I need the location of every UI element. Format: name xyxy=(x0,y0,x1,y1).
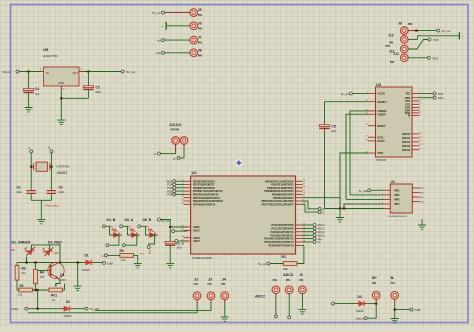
pin PD2 xyxy=(183,186,216,190)
pin PC2 xyxy=(270,230,306,234)
wire to resonator ground xyxy=(31,200,51,217)
LED D4_B xyxy=(102,218,122,238)
wire J3 to 5v_usb xyxy=(95,303,211,310)
svg-text:J5: J5 xyxy=(198,8,202,12)
connector G xyxy=(298,279,306,314)
pin PB2 xyxy=(267,186,306,190)
svg-text:100n: 100n xyxy=(177,248,183,250)
svg-text:C1: C1 xyxy=(17,186,21,190)
LED D6_R xyxy=(138,218,158,238)
terminal ADC3 xyxy=(303,233,325,237)
ground U5 xyxy=(57,118,65,125)
svg-text:PIN: PIN xyxy=(198,27,202,30)
svg-text:1N4007: 1N4007 xyxy=(356,311,365,313)
svg-text:1N4007: 1N4007 xyxy=(82,270,91,272)
pin J1 MP1 xyxy=(395,188,425,192)
terminal 5v_rec output xyxy=(121,70,136,74)
potentiometer RV1 xyxy=(49,284,65,302)
terminal ADC2 xyxy=(303,230,325,234)
pin PD1 xyxy=(183,183,215,187)
svg-text:J12: J12 xyxy=(393,52,399,56)
svg-text:PIN: PIN xyxy=(198,42,202,45)
wire to D3 xyxy=(335,303,356,305)
svg-text:ADC3: ADC3 xyxy=(283,273,293,277)
pin U3 RI xyxy=(408,114,422,118)
svg-text:G: G xyxy=(300,273,303,277)
svg-text:5v_usb: 5v_usb xyxy=(359,189,368,193)
terminal t1 right xyxy=(318,207,325,211)
svg-text:ADC2: ADC2 xyxy=(255,294,265,298)
connector J6 xyxy=(162,21,203,30)
svg-text:220: 220 xyxy=(22,272,27,275)
wire PB6 to t1 xyxy=(303,201,319,209)
svg-text:10u: 10u xyxy=(35,92,40,96)
svg-text:D1_GREEN: D1_GREEN xyxy=(12,241,31,245)
capacitor C2 xyxy=(47,186,65,201)
terminal TDX J11 xyxy=(428,38,439,42)
svg-text:TDX: TDX xyxy=(433,38,439,42)
resistor R3 xyxy=(15,266,26,290)
connector J9 xyxy=(398,21,416,34)
svg-text:Q1: Q1 xyxy=(60,273,65,277)
wire Vinput to B+ xyxy=(367,304,376,319)
pin U3 DTR xyxy=(405,106,421,110)
terminal RDX xyxy=(167,179,184,183)
pin U3 OSCI xyxy=(366,136,384,140)
terminal R5 left xyxy=(101,254,108,258)
pin U3 USBDP xyxy=(366,113,387,117)
svg-text:R3: R3 xyxy=(22,267,26,271)
diode D3 1N4007 xyxy=(356,295,378,313)
pin U3 RXD xyxy=(405,96,421,100)
svg-text:scl: scl xyxy=(318,240,322,244)
pin PB7 xyxy=(262,203,306,207)
svg-text:PIN: PIN xyxy=(391,282,395,285)
svg-text:ATMEGA328P: ATMEGA328P xyxy=(192,256,212,260)
pin PB1 xyxy=(271,183,306,187)
svg-text:B+: B+ xyxy=(372,276,378,280)
pin U3 DCD xyxy=(405,111,423,115)
pin U3 CBUS0 xyxy=(402,132,423,136)
wire D5_A bottom xyxy=(125,235,136,245)
connector J4 xyxy=(221,278,229,304)
svg-text:16MHZ: 16MHZ xyxy=(57,171,68,175)
wire TXD to TDX xyxy=(419,93,433,95)
svg-text:PIN: PIN xyxy=(194,283,198,286)
svg-text:J13J14: J13J14 xyxy=(169,123,181,127)
svg-text:1.0k: 1.0k xyxy=(121,259,126,262)
svg-text:5v_rec: 5v_rec xyxy=(127,70,137,74)
svg-text:22pF: 22pF xyxy=(17,191,23,194)
ground R5 xyxy=(134,261,142,268)
wire crystal right xyxy=(50,153,52,191)
svg-text:22pF: 22pF xyxy=(59,191,65,194)
ground J4 xyxy=(221,315,229,322)
wire RXD to RDX xyxy=(419,97,433,99)
svg-text:CBUS0: CBUS0 xyxy=(402,133,411,136)
wire J9 to 5v_rec xyxy=(416,30,436,32)
terminal TDX xyxy=(167,183,184,187)
terminal RDX J12 xyxy=(427,56,438,60)
svg-text:RDX: RDX xyxy=(433,56,439,60)
connector J3 xyxy=(207,278,215,304)
svg-text:PIN: PIN xyxy=(408,23,412,26)
pin PB0 xyxy=(265,180,306,184)
svg-text:ADC0: ADC0 xyxy=(318,223,325,227)
capacitor C5_D xyxy=(165,241,185,261)
svg-text:Resonator: Resonator xyxy=(46,203,59,207)
svg-text:U5: U5 xyxy=(43,47,49,52)
terminal Vinput xyxy=(2,70,19,74)
svg-text:PIN: PIN xyxy=(198,54,202,57)
svg-text:LD1117V50: LD1117V50 xyxy=(43,54,58,58)
svg-text:J8: J8 xyxy=(198,48,202,52)
pin U3 CBUS2 xyxy=(402,140,423,144)
svg-text:RESET: RESET xyxy=(377,125,386,128)
svg-text:CaB-: CaB- xyxy=(107,261,113,265)
svg-text:Vinput: Vinput xyxy=(356,317,364,321)
pin U3 OSCO xyxy=(366,139,385,143)
svg-text:R4: R4 xyxy=(40,271,44,275)
wire LED top rail xyxy=(32,245,61,262)
pin ADC7 xyxy=(181,239,200,243)
svg-text:ADC1: ADC1 xyxy=(318,227,325,231)
pin U3 3V3OUT xyxy=(366,100,388,104)
pin PB3 xyxy=(264,190,306,194)
svg-text:PB7/TOSC2/XTAL2/PCINT7: PB7/TOSC2/XTAL2/PCINT7 xyxy=(262,203,294,206)
svg-text:LED: LED xyxy=(54,252,59,255)
terminal sda xyxy=(303,237,323,241)
pin PD4 xyxy=(183,193,219,197)
microcontroller U2 ATMEGA328P xyxy=(191,170,296,260)
svg-text:U3: U3 xyxy=(376,82,382,87)
svg-text:UB-MSBR-S14-4S: UB-MSBR-S14-4S xyxy=(389,216,408,218)
pin PD5 xyxy=(182,196,221,200)
svg-text:R1: R1 xyxy=(282,255,286,259)
pin U3 CBUS4 xyxy=(402,148,423,152)
svg-text:PIN PIN: PIN PIN xyxy=(171,129,180,132)
wire input to U5 xyxy=(19,71,41,73)
pin U3 VCCIO xyxy=(367,92,385,96)
svg-text:MP4: MP4 xyxy=(395,203,401,206)
ground right xyxy=(421,219,423,223)
wire J13 xyxy=(175,144,177,154)
svg-text:R5: R5 xyxy=(120,249,124,253)
svg-text:C4: C4 xyxy=(35,87,39,91)
ground B- xyxy=(391,316,399,323)
terminal D5_A bottom xyxy=(122,244,125,247)
terminal PD4 xyxy=(167,193,183,197)
svg-text:J6: J6 xyxy=(198,21,202,25)
svg-text:RI: RI xyxy=(408,115,411,118)
pin J1 MP2 xyxy=(395,193,425,198)
svg-text:J2: J2 xyxy=(194,278,198,282)
pin U3 USBDM xyxy=(366,109,387,113)
pin U3 CBUS3 xyxy=(402,144,423,148)
transistor Q1 BC547 xyxy=(37,262,66,282)
connector B- xyxy=(391,276,399,303)
pin U3 CTS xyxy=(405,103,422,107)
svg-text:CBUS3: CBUS3 xyxy=(402,145,411,148)
svg-text:PD7/AIN1/PCINT23: PD7/AIN1/PCINT23 xyxy=(193,203,216,206)
svg-text:ADC2: ADC2 xyxy=(318,230,325,234)
svg-text:1N4007: 1N4007 xyxy=(64,316,73,318)
capacitor C3 xyxy=(83,72,102,99)
svg-text:Vinput: Vinput xyxy=(2,70,11,74)
terminal CaB- xyxy=(103,261,114,265)
svg-text:PIN: PIN xyxy=(299,279,303,282)
connector J2 xyxy=(193,278,201,304)
svg-text:J3: J3 xyxy=(208,278,212,282)
terminal TDX xyxy=(433,92,443,96)
terminal t2 xyxy=(48,146,53,153)
pin J1 MP4 xyxy=(395,202,425,207)
terminal 5v_rec R1 xyxy=(258,262,270,266)
svg-text:AVCC: AVCC xyxy=(193,230,200,233)
svg-text:MP3: MP3 xyxy=(395,199,401,202)
pin U3 RTS xyxy=(405,99,421,103)
svg-text:PIN: PIN xyxy=(273,279,277,282)
wire TEST to ground xyxy=(340,153,368,209)
ground J1 xyxy=(336,215,344,222)
svg-text:+: + xyxy=(461,35,463,39)
connector J10 xyxy=(388,34,459,45)
svg-text:FT232R: FT232R xyxy=(376,158,386,162)
pin J1 4 xyxy=(382,202,390,204)
svg-text:C2: C2 xyxy=(59,186,63,190)
terminal ADC1 xyxy=(303,227,325,231)
svg-text:OUT: OUT xyxy=(72,71,78,75)
svg-text:5v_rec: 5v_rec xyxy=(152,11,161,15)
wire 3V3OUT to C5 xyxy=(325,102,369,125)
resistor R1 xyxy=(270,245,304,270)
pin PC3 xyxy=(270,234,306,238)
terminal ADC7 xyxy=(175,240,188,243)
wire CaR+ to D2 xyxy=(28,290,61,309)
svg-text:D6_R: D6_R xyxy=(143,218,152,222)
pin U3 TEST xyxy=(366,151,384,155)
svg-text:2K: 2K xyxy=(52,299,55,302)
svg-text:CaR+: CaR+ xyxy=(12,307,20,311)
svg-text:1.0k: 1.0k xyxy=(18,293,23,296)
capacitor C5 xyxy=(319,125,340,209)
resistor R5 xyxy=(108,249,138,262)
wire LED bottom rail xyxy=(17,257,83,270)
svg-text:LED: LED xyxy=(11,249,16,252)
svg-text:CAB-: CAB- xyxy=(415,308,422,312)
connector J7 xyxy=(157,36,202,45)
wire J1 pin4 to ground xyxy=(344,204,383,209)
diode D1 1N4007 xyxy=(82,254,103,272)
svg-text:VCCIO: VCCIO xyxy=(377,93,385,96)
connector ADC3 xyxy=(285,279,293,319)
svg-text:ADC7: ADC7 xyxy=(193,240,200,243)
svg-text:CBUS2: CBUS2 xyxy=(402,141,411,144)
terminal left of D3 xyxy=(332,302,335,305)
svg-text:PIN: PIN xyxy=(389,41,393,44)
terminal t1 xyxy=(28,146,33,153)
LED D1_GREEN xyxy=(22,242,37,257)
svg-text:CBUS1: CBUS1 xyxy=(402,137,411,140)
svg-text:TEST: TEST xyxy=(377,152,384,155)
svg-text:100n: 100n xyxy=(331,131,337,133)
svg-text:C5: C5 xyxy=(332,125,336,129)
terminal s1 xyxy=(153,152,160,156)
wire D6_R bottom xyxy=(149,235,155,246)
diode D2 1N4007 xyxy=(61,300,85,318)
wire USBDM xyxy=(350,111,383,195)
terminal 5v_usb bottom xyxy=(85,307,99,311)
svg-text:D5_A: D5_A xyxy=(125,218,134,222)
pin U3 CBUS1 xyxy=(402,136,423,140)
svg-text:PIN: PIN xyxy=(386,45,390,48)
wire to AREF xyxy=(161,220,188,228)
svg-text:sda: sda xyxy=(156,51,161,55)
svg-text:PIN: PIN xyxy=(221,283,225,286)
wire U5 GND xyxy=(60,86,62,90)
wire J1 pin5 to ground xyxy=(340,209,383,216)
svg-text:220: 220 xyxy=(40,276,45,279)
wire J2 to CaR+ xyxy=(28,303,197,313)
svg-text:U2: U2 xyxy=(192,170,198,175)
svg-text:PIN: PIN xyxy=(286,279,290,282)
pin U3 DSR xyxy=(405,109,421,113)
terminal t2 right xyxy=(318,211,325,215)
pin PB5 xyxy=(273,196,306,200)
pin PD6 xyxy=(181,199,223,203)
wire Q1 emitter xyxy=(56,279,60,287)
pin PD0 xyxy=(183,180,216,184)
connector J12 xyxy=(390,52,427,64)
ground C5_D xyxy=(166,261,174,268)
svg-text:scl: scl xyxy=(157,39,161,43)
svg-text:PD4: PD4 xyxy=(167,193,173,197)
svg-text:RV1: RV1 xyxy=(51,294,57,298)
wire U5 OUT xyxy=(79,71,83,73)
svg-text:CRYSTAL: CRYSTAL xyxy=(57,164,70,168)
svg-text:GND: GND xyxy=(58,81,64,85)
svg-text:PIN: PIN xyxy=(198,14,202,17)
svg-text:ADC3: ADC3 xyxy=(318,233,325,237)
svg-text:PIN: PIN xyxy=(390,61,394,64)
svg-text:220u: 220u xyxy=(96,90,102,94)
svg-text:PIN: PIN xyxy=(372,282,376,285)
pin U3 TXD xyxy=(405,92,421,96)
pin ADC6 xyxy=(181,236,200,240)
svg-text:OSCO: OSCO xyxy=(377,140,384,143)
pin PB6 xyxy=(262,199,305,203)
terminal 5v_rec right xyxy=(437,29,451,33)
svg-text:D4_B: D4_B xyxy=(107,218,116,222)
svg-text:CBUS4: CBUS4 xyxy=(402,149,411,152)
capacitor C1 xyxy=(17,186,37,201)
svg-text:D3: D3 xyxy=(358,295,362,299)
connector J13 J14 xyxy=(169,123,188,144)
terminal 5v_usb J1 xyxy=(359,189,383,193)
pin AREF xyxy=(181,225,200,229)
terminal 5v_rec mid xyxy=(158,218,170,223)
svg-text:5v_rec: 5v_rec xyxy=(258,262,267,266)
svg-text:TDX: TDX xyxy=(438,92,444,96)
svg-text:USBDP: USBDP xyxy=(377,113,386,116)
svg-text:J7: J7 xyxy=(198,36,202,40)
terminal D4_B bottom xyxy=(106,244,109,247)
svg-text:R2: R2 xyxy=(20,284,24,288)
svg-text:RDX: RDX xyxy=(438,96,444,100)
wire crystal left xyxy=(31,153,33,191)
pin PC5 xyxy=(264,240,306,244)
svg-text:MP2: MP2 xyxy=(395,194,401,197)
connector J5 xyxy=(152,8,202,17)
pin PD7 xyxy=(181,203,215,207)
svg-text:PIN: PIN xyxy=(208,283,212,286)
pin PC4 xyxy=(264,237,306,241)
pin J1 MP3 xyxy=(395,197,425,202)
svg-text:5v_rec: 5v_rec xyxy=(341,92,350,96)
svg-text:RED: RED xyxy=(145,226,150,228)
terminal 5v_rec U3 xyxy=(341,92,368,96)
svg-text:D2: D2 xyxy=(66,300,70,304)
crystal X1 16MHZ xyxy=(34,162,70,175)
pin PC0 xyxy=(272,223,306,227)
wire to cap xyxy=(169,227,171,242)
connector J11 xyxy=(386,40,428,54)
LED D2_RED xyxy=(40,243,55,258)
pin PB4 xyxy=(272,193,306,197)
svg-text:sda: sda xyxy=(318,237,323,241)
wire D4_B bottom xyxy=(109,235,119,245)
svg-text:IN: IN xyxy=(46,71,49,75)
cursor marker xyxy=(236,160,243,167)
ground below C4 xyxy=(25,105,33,112)
svg-text:MP1: MP1 xyxy=(395,189,401,192)
connector B+ xyxy=(372,276,380,304)
wire PB7 to t2 xyxy=(303,204,319,212)
terminal ADC0 xyxy=(303,223,325,227)
terminal CAB- xyxy=(410,308,421,312)
pin U3 RESET xyxy=(366,124,386,128)
svg-text:3V3OUT: 3V3OUT xyxy=(377,101,387,104)
ground near D1 xyxy=(74,284,82,291)
pin J1 1 xyxy=(382,189,390,191)
wire collector to D1 xyxy=(77,263,79,285)
terminal s2 xyxy=(173,156,180,160)
resistor R2 xyxy=(17,284,49,296)
terminal PD3 xyxy=(167,189,183,193)
resistor R4 xyxy=(34,269,45,290)
terminal AVCC xyxy=(172,230,188,233)
pin PC6 xyxy=(269,244,305,248)
svg-text:J9: J9 xyxy=(398,21,402,25)
regulator U5 xyxy=(40,47,82,91)
svg-text:100K: 100K xyxy=(283,268,289,271)
wire B- to ground xyxy=(395,303,410,316)
svg-text:J1: J1 xyxy=(391,179,396,184)
ground resonator xyxy=(37,217,45,224)
power bar terminal xyxy=(458,32,460,39)
wire J4 to ground xyxy=(224,303,226,315)
terminal scl xyxy=(303,240,321,244)
svg-text:J4: J4 xyxy=(222,278,226,282)
wire PB5 to ground net xyxy=(303,198,340,204)
svg-text:D2_RED: D2_RED xyxy=(48,241,62,245)
terminal Vinput bottom xyxy=(356,317,367,321)
LED D5_A xyxy=(120,218,140,238)
pin J1 3 xyxy=(382,198,390,200)
wire J14 xyxy=(183,144,185,150)
connector ADC2 xyxy=(255,279,280,318)
terminal PD2 xyxy=(167,186,183,190)
